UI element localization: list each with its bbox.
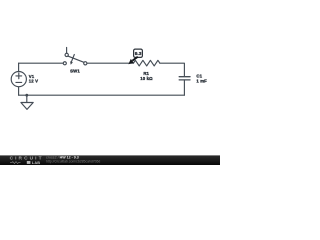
svg-text:LAB: LAB xyxy=(32,161,40,165)
circuitlab logo xyxy=(10,156,43,165)
svg-text:9.3: 9.3 xyxy=(135,51,142,57)
canvas background xyxy=(0,0,220,165)
wire resistor to capacitor corner xyxy=(160,63,185,76)
annotation arrow xyxy=(132,57,138,61)
capacitor C1 xyxy=(179,77,190,80)
wire V1 bottom stub xyxy=(18,87,20,95)
resistor R1 xyxy=(134,60,160,66)
wire switch to resistor xyxy=(87,62,134,64)
svg-text:10 kΩ: 10 kΩ xyxy=(140,76,153,81)
labels xyxy=(29,69,207,84)
wire capacitor down xyxy=(183,80,185,95)
svg-text:SW1: SW1 xyxy=(70,69,80,74)
switch SW1 xyxy=(63,47,87,65)
annotation callout 9.3 xyxy=(128,49,142,64)
svg-text:1 mF: 1 mF xyxy=(196,78,207,83)
wire top rail to switch xyxy=(19,62,64,64)
wire bottom rail xyxy=(19,94,185,96)
svg-text:12 V: 12 V xyxy=(29,79,38,84)
voltage source V1 xyxy=(11,72,26,87)
node junction dot xyxy=(25,94,28,97)
svg-text:http://circuitlab.com/c6285cah: http://circuitlab.com/c6285cahd7b5d xyxy=(46,160,100,164)
footer bar xyxy=(0,155,220,165)
footer title text xyxy=(46,156,100,164)
wire V1 top stub xyxy=(18,63,20,71)
ground xyxy=(21,95,33,109)
